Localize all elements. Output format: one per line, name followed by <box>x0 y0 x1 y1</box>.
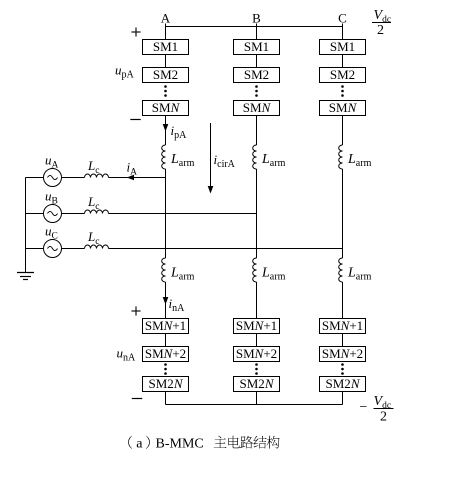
svg-text:SM2N: SM2N <box>240 376 275 391</box>
svg-text:SM2: SM2 <box>153 67 178 82</box>
svg-text:SM2N: SM2N <box>149 376 184 391</box>
svg-text:SM1: SM1 <box>244 39 269 54</box>
svg-text:a: a <box>136 437 143 452</box>
svg-text:2: 2 <box>377 23 384 38</box>
svg-text:SM2: SM2 <box>330 67 355 82</box>
svg-text:SMN+1: SMN+1 <box>236 318 277 333</box>
svg-text:SM1: SM1 <box>153 39 178 54</box>
svg-text:Larm: Larm <box>347 266 372 283</box>
svg-text:iA: iA <box>127 160 138 178</box>
svg-text:A: A <box>161 11 171 26</box>
svg-text:unA: unA <box>117 346 137 364</box>
svg-text:SMN+2: SMN+2 <box>322 346 363 361</box>
svg-text:Lc: Lc <box>87 229 99 247</box>
svg-text:B: B <box>252 11 261 26</box>
svg-text:SMN+2: SMN+2 <box>145 346 186 361</box>
svg-text:icirA: icirA <box>214 152 236 170</box>
svg-text:SMN: SMN <box>329 100 358 115</box>
svg-text:SMN+1: SMN+1 <box>145 318 186 333</box>
svg-text:Larm: Larm <box>261 152 286 169</box>
svg-text:SM2: SM2 <box>244 67 269 82</box>
svg-text:SMN+1: SMN+1 <box>322 318 363 333</box>
svg-text:ipA: ipA <box>171 123 188 141</box>
svg-text:C: C <box>338 11 347 26</box>
svg-text:SM2N: SM2N <box>326 376 361 391</box>
svg-text:Lc: Lc <box>87 194 99 212</box>
svg-text:2: 2 <box>380 410 387 425</box>
svg-text:Lc: Lc <box>87 158 99 176</box>
svg-text:uA: uA <box>45 153 59 171</box>
svg-text:Larm: Larm <box>261 266 286 283</box>
svg-text:inA: inA <box>169 296 186 314</box>
svg-text:Larm: Larm <box>347 152 372 169</box>
svg-text:SMN+2: SMN+2 <box>236 346 277 361</box>
svg-text:Larm: Larm <box>170 266 195 283</box>
svg-text:upA: upA <box>115 63 135 81</box>
svg-text:SMN: SMN <box>243 100 272 115</box>
svg-text:uC: uC <box>45 224 58 242</box>
svg-text:SM1: SM1 <box>330 39 355 54</box>
svg-text:SMN: SMN <box>152 100 181 115</box>
svg-text:Larm: Larm <box>170 152 195 169</box>
svg-text:B-MMC: B-MMC <box>156 437 204 452</box>
svg-text:uB: uB <box>45 189 58 207</box>
svg-text:−: − <box>360 400 368 415</box>
